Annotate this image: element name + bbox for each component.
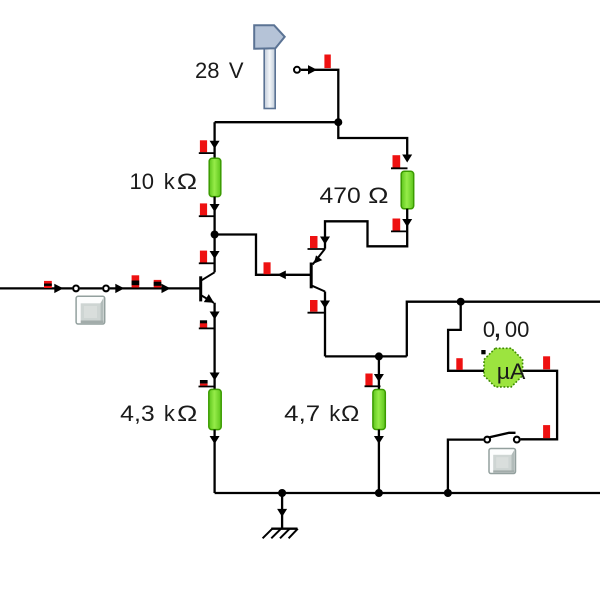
wire R4 to bottom rail: [378, 430, 380, 494]
input terminal circle (28V feed): [294, 67, 300, 73]
top rail wire: [215, 121, 339, 123]
current arrow on 28V feed wire: [308, 65, 317, 74]
transistor Q1 emitter diagonal: [202, 296, 214, 303]
current indicator below R2: [393, 219, 401, 231]
resistor R4 4,7 kOhm: [373, 390, 385, 430]
input switch closed blade: [80, 287, 102, 289]
junction node top rail: [334, 118, 342, 126]
current indicator after switch (split): [132, 275, 140, 287]
ground symbol hatches: [263, 529, 273, 539]
current indicator Q2 emitter feed: [310, 236, 318, 248]
current arrow above R4: [374, 374, 384, 382]
transistor Q2 emitter arrowhead (PNP): [314, 255, 323, 263]
wire meter switch to bottom rail: [448, 440, 484, 493]
transistor Q2 collector diagonal: [312, 286, 325, 292]
input push button icon: [76, 296, 105, 324]
wire below R1 to junction: [213, 197, 215, 235]
svg-text:0: 0: [483, 317, 495, 342]
ground symbol bar: [271, 528, 297, 530]
current indicator bar 28V feed: [324, 55, 330, 69]
svg-text:k: k: [164, 169, 176, 194]
svg-text:4,7: 4,7: [284, 401, 320, 426]
current indicator below R1: [200, 203, 207, 215]
current indicator above R1: [200, 140, 207, 152]
wire meter right: [521, 371, 558, 440]
input switch contact circle left: [73, 286, 79, 292]
ground stub wire: [281, 493, 283, 528]
junction node meter branch: [457, 298, 465, 306]
current indicator below Q1 emitter (split): [200, 320, 207, 327]
transistor Q1 base bar: [199, 276, 202, 301]
wire 4,7k branch down: [378, 356, 380, 389]
wire R3 to bottom rail: [213, 430, 215, 493]
svg-text:V: V: [229, 58, 244, 83]
svg-text:Ω: Ω: [177, 401, 197, 426]
meter push button icon: [489, 449, 516, 474]
resistor R3 4,3 kOhm: [209, 389, 221, 429]
svg-text:470: 470: [320, 183, 361, 208]
wire Q2 collector down: [324, 292, 326, 357]
wire Q2 collector to right column: [325, 355, 407, 357]
current arrow below Q1 emitter: [210, 312, 220, 320]
svg-text:,: ,: [494, 317, 500, 342]
meter switch open blade: [490, 433, 516, 438]
ammeter polarity dot: [481, 350, 485, 354]
ammeter M1 body: [484, 348, 523, 387]
svg-text:k: k: [329, 401, 341, 426]
current indicator meter right: [543, 356, 550, 369]
current indicator Q2 collector: [310, 300, 318, 312]
meter switch contact circle left: [484, 437, 490, 443]
current arrow above Q1 collector: [210, 251, 220, 259]
junction node ground: [278, 489, 286, 497]
transistor Q2 base bar: [310, 263, 313, 289]
current indicator above R3 (split): [200, 380, 208, 384]
wire Q1 emitter down: [213, 303, 215, 390]
current arrow above R3: [210, 373, 220, 381]
junction node 4,7k top: [375, 352, 383, 360]
current indicator Q2 base wire: [264, 262, 271, 274]
meter switch contact circle right: [514, 437, 520, 443]
power supply symbol stem: [264, 47, 275, 109]
current arrow below R4: [374, 436, 384, 444]
resistor R2 470 Ohm: [401, 171, 414, 209]
current arrow below R2: [402, 219, 412, 227]
current arrow Q2 base wire pointing left: [277, 271, 286, 280]
wire top rail down to R1: [213, 122, 215, 158]
wire jog to 470 ohm branch: [338, 122, 407, 158]
svg-text:k: k: [164, 401, 176, 426]
current arrow above R2: [402, 155, 412, 163]
svg-text:Ω: Ω: [177, 169, 197, 194]
current indicator input wire (split): [44, 281, 52, 288]
wire junction to Q1 collector: [213, 235, 215, 273]
wire branch junction to Q2 base jog: [215, 235, 312, 275]
current indicator before base (split): [154, 280, 162, 288]
svg-text:µA: µA: [497, 359, 526, 384]
wire from terminal to corner: [301, 70, 338, 122]
current indicator above lower switch: [543, 425, 550, 438]
junction node at R1 bottom: [211, 231, 219, 239]
svg-text:4,3: 4,3: [120, 401, 155, 426]
wire switch to Q1 base: [110, 287, 201, 289]
power supply flag symbol 28V: [254, 25, 285, 48]
transistor Q1 collector diagonal: [202, 272, 215, 280]
resistor R1 10 kOhm: [209, 158, 221, 196]
svg-text:Ω: Ω: [368, 183, 388, 208]
svg-text:00: 00: [505, 317, 529, 342]
input base wire left segment: [0, 287, 72, 289]
current arrow input wire: [54, 284, 63, 293]
bottom rail wire: [215, 492, 600, 494]
transistor Q2 emitter diagonal: [313, 249, 325, 265]
current arrow Q2 collector: [320, 301, 330, 309]
svg-text:10: 10: [130, 169, 154, 194]
current arrow ground stub: [277, 509, 287, 517]
current arrow below R3: [210, 436, 220, 444]
transistor Q1 emitter arrowhead: [204, 294, 214, 303]
current arrow above R1: [210, 141, 220, 149]
svg-text:28: 28: [195, 58, 219, 83]
current indicator above Q1 collector: [200, 251, 207, 263]
current indicator above R4: [365, 374, 372, 386]
current arrow Q2 emitter feed: [320, 237, 330, 245]
wire right column up to top right rail: [407, 302, 600, 357]
junction node meter return: [444, 489, 452, 497]
current arrow below R1: [210, 204, 220, 212]
current arrow after switch: [115, 284, 124, 293]
current arrow before base: [162, 284, 171, 293]
meter branch jog wire: [448, 302, 484, 371]
current indicator above R2: [393, 155, 401, 167]
svg-text:Ω: Ω: [341, 401, 359, 426]
current indicator meter left: [456, 358, 462, 370]
wire below R2 jog to Q2 emitter: [325, 209, 407, 249]
junction node R4 bottom: [375, 489, 383, 497]
input switch contact circle right: [103, 286, 109, 292]
